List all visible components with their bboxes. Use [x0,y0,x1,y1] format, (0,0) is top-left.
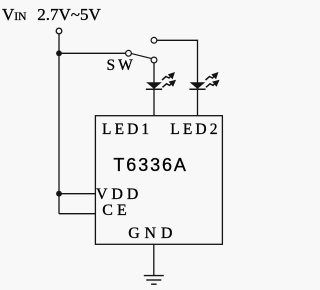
pin label LED1 [102,122,152,138]
LED LED2 cathode bar [189,88,205,90]
label: VIN supply text [2,6,101,24]
LED LED2 emission arrow upper [206,74,218,81]
LED LED1 cathode bar [146,88,162,90]
switch SW upper throw contact circle [151,37,157,43]
ground symbol bar 2 [146,279,161,281]
IC U1 T6336A body box [95,116,222,245]
switch SW lower throw contact circle [151,57,157,63]
wire: VIN rail vertical [58,34,60,214]
label: switch SW [107,58,136,74]
wire: VIN junction to switch pole [59,52,127,54]
ground symbol bar 1 [144,275,164,277]
wire: VDD pin horizontal [59,193,96,195]
ground symbol bar 3 [151,283,157,285]
pin label GND [128,226,177,242]
LED LED1 emission arrow upper [162,74,174,81]
pin label CE [102,203,130,219]
pin label LED2 [170,122,220,138]
node: junction dot at VIN rail / switch feed [56,50,62,56]
LED LED1 diode triangle [146,82,162,89]
switch SW lever [131,53,152,58]
part number T6336A [113,156,187,174]
node: junction dot at VDD pin [56,191,62,197]
terminal: VIN open terminal circle [56,28,62,34]
wire: lower throw down to LED1 / pin LED1 [153,63,155,116]
pin label VDD [96,187,142,203]
wire: CE pin horizontal [59,213,96,215]
wire: GND pin down from box [153,244,155,275]
LED LED1 emission arrow lower [163,81,175,87]
wire: upper throw to LED2 column [157,40,198,115]
switch SW pole contact circle [126,50,132,56]
LED LED2 emission arrow lower [206,81,218,87]
LED LED2 diode triangle [190,82,206,89]
